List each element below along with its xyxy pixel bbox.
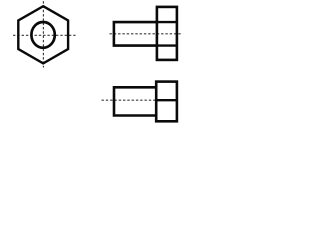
bottom bolt head middle facet line [156,99,177,101]
nut horizontal centerline [13,34,76,36]
square head bolt side view (bottom) [102,82,177,122]
nut hole circle [31,22,54,48]
top bolt head lower facet line [157,44,177,46]
top bolt head upper facet line [157,21,177,23]
top bolt head [157,7,177,60]
top bolt centerline [110,33,182,35]
bottom bolt head [156,82,177,122]
hexagon outline [18,6,68,63]
bottom bolt centerline [102,99,157,101]
top bolt shank [114,22,157,45]
nut vertical centerline [42,1,44,67]
bottom bolt shank [114,87,156,115]
hex head bolt side view (top) [110,7,182,60]
hex nut front view [13,1,76,67]
